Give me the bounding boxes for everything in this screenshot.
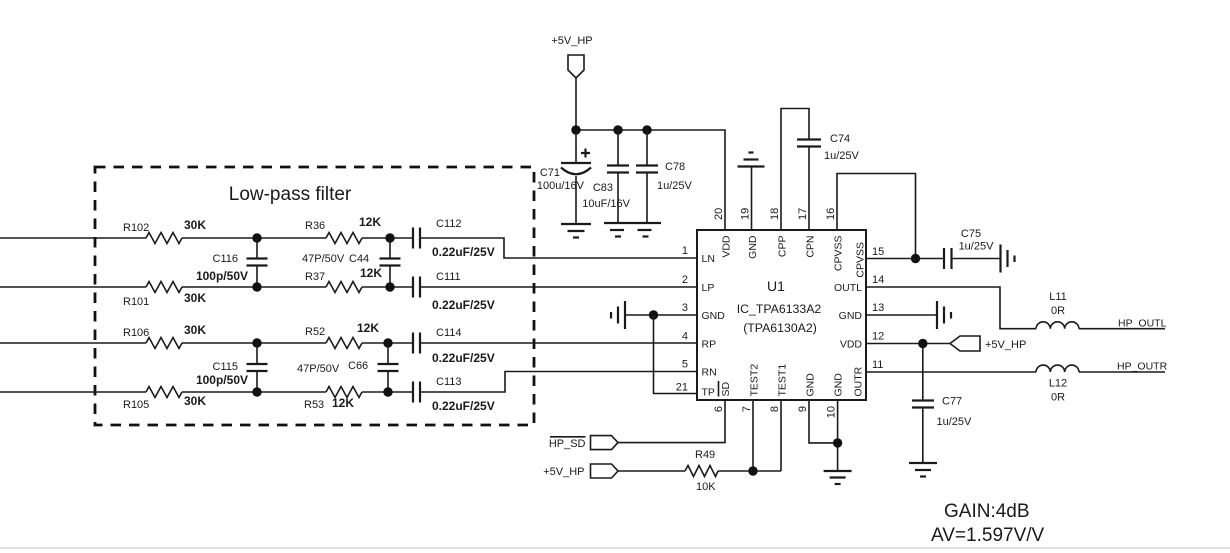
svg-text:10uF/16V: 10uF/16V <box>582 198 630 210</box>
wire pin 10 GND down to ground <box>837 400 839 471</box>
capacitor C115 100p/50V <box>196 343 268 392</box>
svg-text:1u/25V: 1u/25V <box>824 150 860 162</box>
svg-text:0.22uF/25V: 0.22uF/25V <box>432 399 495 413</box>
svg-text:Low-pass filter: Low-pass filter <box>229 184 352 205</box>
ground C77 <box>909 463 937 477</box>
svg-text:C114: C114 <box>436 327 461 339</box>
svg-text:CPP: CPP <box>777 236 789 258</box>
U1 bottom pin numbers rotated <box>713 406 838 418</box>
svg-text:+5V_HP: +5V_HP <box>551 35 592 47</box>
wire row1 R36 to C112 <box>362 237 413 239</box>
svg-text:TP: TP <box>702 387 715 399</box>
capacitor C78 1u/25V <box>636 130 693 223</box>
svg-text:17: 17 <box>797 208 809 220</box>
junction row3 col1 <box>252 338 261 347</box>
junction rail C71 <box>571 125 580 134</box>
junction row2 col2 <box>385 282 394 291</box>
svg-text:+5V_HP: +5V_HP <box>543 466 584 478</box>
U1 left pin numbers <box>676 245 688 394</box>
wire pin 13 GND <box>866 314 937 316</box>
resistor R101 <box>123 282 206 309</box>
svg-text:GND: GND <box>747 235 759 259</box>
svg-text:10K: 10K <box>696 481 716 493</box>
capacitor C111 0.22uF/25V <box>413 271 495 312</box>
wire row1 left input to R102 <box>0 237 146 239</box>
svg-text:0.22uF/25V: 0.22uF/25V <box>432 245 495 259</box>
svg-text:OUTR: OUTR <box>853 366 865 396</box>
junction row1 col1 <box>252 233 261 242</box>
wire +5V_HP flag down to rail <box>575 78 577 130</box>
svg-text:30K: 30K <box>184 218 206 232</box>
ground C83 C78 shared <box>604 223 661 237</box>
svg-text:CPN: CPN <box>805 236 817 258</box>
svg-text:4: 4 <box>682 331 688 343</box>
power flag +5V_HP bottom left <box>543 464 618 478</box>
svg-text:GND: GND <box>833 373 845 397</box>
capacitor C83 10uF/16V <box>582 130 630 223</box>
svg-text:GND: GND <box>805 373 817 397</box>
svg-text:R53: R53 <box>304 399 324 411</box>
svg-text:R37: R37 <box>305 271 325 283</box>
power flag +5V_HP right <box>950 336 1026 351</box>
svg-text:47P/50V: 47P/50V <box>297 363 340 375</box>
svg-text:18: 18 <box>769 208 781 220</box>
svg-text:R105: R105 <box>123 399 149 411</box>
svg-text:R102: R102 <box>123 222 149 234</box>
svg-text:R36: R36 <box>305 220 325 232</box>
svg-text:CPVSS: CPVSS <box>833 236 845 272</box>
svg-text:12K: 12K <box>332 396 354 410</box>
sheet bottom edge line <box>0 547 1230 549</box>
wire pin 3 GND <box>625 314 697 316</box>
svg-text:+5V_HP: +5V_HP <box>985 339 1026 351</box>
svg-text:0.22uF/25V: 0.22uF/25V <box>432 298 495 312</box>
svg-text:C66: C66 <box>348 360 368 372</box>
wire pin 16 CPVSS to pin 15 net <box>837 174 916 259</box>
svg-text:100u/16V: 100u/16V <box>537 180 585 192</box>
svg-text:12: 12 <box>872 331 884 343</box>
wire +5V rail to pin 20 <box>576 130 725 230</box>
svg-text:SD: SD <box>720 381 732 396</box>
ground pin 13 pointing right <box>937 301 951 329</box>
svg-text:C74: C74 <box>830 133 850 145</box>
svg-text:1u/25V: 1u/25V <box>959 241 995 253</box>
svg-text:30K: 30K <box>184 291 206 305</box>
U1 right pin names <box>834 282 862 351</box>
wire row1 C112 to pin 1 with step <box>420 238 697 258</box>
svg-text:CPVSS: CPVSS <box>855 242 867 278</box>
svg-text:100p/50V: 100p/50V <box>196 269 248 283</box>
svg-text:GND: GND <box>839 310 863 322</box>
wire row2 R37 to C111 <box>362 286 413 288</box>
svg-text:15: 15 <box>872 246 884 258</box>
svg-text:9: 9 <box>797 406 809 412</box>
signal flag HP_SD <box>549 436 618 450</box>
svg-text:30K: 30K <box>184 323 206 337</box>
junction row4 col1 <box>252 387 261 396</box>
wire pin 6 SD to HP_SD flag <box>618 400 725 443</box>
ground C75 pointing right <box>1001 245 1015 273</box>
op-amp U1 IC_TPA6133A2 body <box>697 230 866 400</box>
wire R49 to TEST pins <box>718 470 781 472</box>
U1 left pin names <box>702 253 726 399</box>
svg-text:VDD: VDD <box>840 339 863 351</box>
wire row4 R105 to R53 <box>182 391 326 393</box>
junction pin 15 net <box>911 254 920 263</box>
svg-text:R106: R106 <box>123 327 149 339</box>
svg-text:C44: C44 <box>349 253 369 265</box>
svg-text:OUTL: OUTL <box>834 282 862 294</box>
wire +5V_HP flag to R49 <box>618 470 685 472</box>
junction row1 col2 <box>385 233 394 242</box>
U1 top pin numbers rotated <box>713 208 837 220</box>
svg-text:7: 7 <box>741 406 753 412</box>
svg-text:6: 6 <box>713 406 725 412</box>
svg-text:30K: 30K <box>184 394 206 408</box>
svg-text:IC_TPA6133A2: IC_TPA6133A2 <box>737 302 822 316</box>
resistor R53 <box>304 387 362 412</box>
wire row1 R102 to R36 <box>182 237 326 239</box>
wire pin 8 TEST1 down <box>780 400 782 471</box>
svg-text:2: 2 <box>682 274 688 286</box>
U1 top pin names rotated <box>721 235 845 271</box>
svg-text:VDD: VDD <box>721 235 733 258</box>
capacitor C75 1u/25V <box>944 228 994 269</box>
wire row4 left input to R105 <box>0 391 146 393</box>
svg-text:0.22uF/25V: 0.22uF/25V <box>432 351 495 365</box>
wire pin 12 VDD to flag <box>866 343 950 345</box>
junction R49 TEST2 <box>748 466 757 475</box>
svg-text:100p/50V: 100p/50V <box>196 373 248 387</box>
capacitor C116 100p/50V <box>196 238 268 287</box>
svg-text:R49: R49 <box>695 449 715 461</box>
svg-text:C115: C115 <box>213 361 238 373</box>
ground C71 <box>561 224 591 238</box>
ground pin 19 pointing up <box>738 153 765 231</box>
svg-text:C112: C112 <box>436 218 461 230</box>
wire row2 C111 to pin 2 <box>420 286 697 288</box>
svg-text:19: 19 <box>740 208 752 220</box>
resistor R37 <box>305 266 382 293</box>
wire row3 left input to R106 <box>0 342 146 344</box>
svg-text:HP_OUTL: HP_OUTL <box>1118 318 1167 330</box>
wire L11 to HP_OUTL <box>1079 328 1165 330</box>
svg-text:RN: RN <box>702 367 717 379</box>
svg-text:C71: C71 <box>540 167 560 179</box>
resistor R36 <box>305 215 381 244</box>
wire pin 7 TEST2 down <box>752 400 754 471</box>
svg-text:1u/25V: 1u/25V <box>657 180 693 192</box>
ground pin 10 <box>824 471 852 484</box>
svg-text:20: 20 <box>713 208 725 220</box>
svg-text:U1: U1 <box>767 278 785 294</box>
inductor L12 0R <box>1036 365 1079 403</box>
capacitor C113 0.22uF/25V <box>413 376 495 413</box>
wire row3 C114 to pin 4 <box>420 342 697 344</box>
wire pin 15 to C75 <box>866 258 944 260</box>
resistor R106 <box>123 323 206 349</box>
wire row2 R101 to R37 <box>182 286 326 288</box>
junction pin 3 net <box>649 310 658 319</box>
svg-text:13: 13 <box>872 302 884 314</box>
capacitor C77 1u/25V <box>912 396 972 464</box>
svg-text:(TPA6130A2): (TPA6130A2) <box>743 321 817 335</box>
wire pin 12 net down to C77 <box>922 344 924 401</box>
svg-text:C111: C111 <box>436 271 461 283</box>
svg-text:3: 3 <box>682 302 688 314</box>
wire pin 9 GND down <box>809 400 838 443</box>
junction pin 12 net <box>918 339 927 348</box>
wire row3 R106 to R52 <box>182 342 326 344</box>
U1 bottom pin names rotated <box>749 364 845 397</box>
svg-text:C75: C75 <box>961 228 981 240</box>
power flag +5V_HP top <box>551 35 592 78</box>
junction row4 col2 <box>383 387 392 396</box>
capacitor C44 47P/50V <box>302 238 401 287</box>
svg-text:TEST2: TEST2 <box>749 364 761 397</box>
svg-text:L12: L12 <box>1049 378 1067 390</box>
junction rail C83 <box>613 125 622 134</box>
resistor R105 <box>123 387 206 412</box>
wire pin 18 CPP loop <box>781 109 809 231</box>
svg-text:16: 16 <box>825 208 837 220</box>
svg-text:1u/25V: 1u/25V <box>937 416 973 428</box>
low-pass filter dashed box <box>95 167 534 425</box>
junction row3 col2 <box>383 338 392 347</box>
svg-text:C113: C113 <box>436 376 461 388</box>
svg-text:14: 14 <box>872 274 884 286</box>
capacitor C74 1u/25V <box>797 133 860 230</box>
ground pin 3 pointing left <box>611 301 625 329</box>
svg-text:C116: C116 <box>213 253 238 265</box>
capacitor C112 0.22uF/25V <box>413 218 495 259</box>
svg-text:L11: L11 <box>1049 291 1067 303</box>
svg-text:0R: 0R <box>1051 392 1065 404</box>
wire row4 R53 to C113 <box>362 391 413 393</box>
wire L12 to HP_OUTR <box>1079 371 1165 373</box>
svg-text:21: 21 <box>676 382 688 394</box>
resistor R49 10K <box>685 449 718 493</box>
svg-text:0R: 0R <box>1051 305 1065 317</box>
resistor R102 <box>123 218 206 244</box>
capacitor C71 100u/16V polarized <box>537 130 591 224</box>
svg-text:HP_SD: HP_SD <box>549 438 586 450</box>
svg-text:C78: C78 <box>665 161 685 173</box>
svg-text:GAIN:4dB: GAIN:4dB <box>944 501 1030 522</box>
wire row4 C113 to pin 5 with step up <box>420 372 697 393</box>
svg-text:8: 8 <box>769 406 781 412</box>
svg-text:12K: 12K <box>357 321 379 335</box>
wire pin 11 OUTR to L12 <box>866 371 1036 373</box>
capacitor C114 0.22uF/25V <box>413 327 495 365</box>
junction row2 col1 <box>252 282 261 291</box>
svg-text:12K: 12K <box>360 266 382 280</box>
svg-text:10: 10 <box>826 406 838 418</box>
junction rail C78 <box>642 125 651 134</box>
svg-text:12K: 12K <box>359 215 381 229</box>
inductor L11 0R <box>1036 291 1079 329</box>
svg-text:C83: C83 <box>593 182 613 194</box>
junction pin 9 pin 10 <box>833 438 842 447</box>
svg-text:AV=1.597V/V: AV=1.597V/V <box>931 525 1045 546</box>
svg-text:LN: LN <box>702 253 715 265</box>
wire row3 R52 to C114 <box>362 342 413 344</box>
svg-text:47P/50V: 47P/50V <box>302 253 345 265</box>
U1 pin 6 name SD-bar rotated <box>719 381 733 397</box>
svg-text:TEST1: TEST1 <box>777 364 789 397</box>
wire row2 left input to R101 <box>0 286 146 288</box>
svg-text:GND: GND <box>702 310 726 322</box>
svg-text:RP: RP <box>702 339 717 351</box>
wire C75 to ground <box>952 258 1001 260</box>
capacitor C66 47P/50V <box>297 343 399 392</box>
svg-text:HP_OUTR: HP_OUTR <box>1117 361 1168 373</box>
svg-text:11: 11 <box>872 359 883 371</box>
U1 right pin numbers <box>872 246 884 371</box>
svg-text:R101: R101 <box>123 296 149 308</box>
svg-text:5: 5 <box>682 359 688 371</box>
svg-text:1: 1 <box>682 245 688 257</box>
svg-text:R52: R52 <box>305 326 325 338</box>
wire pin 14 OUTL to L11 <box>866 287 1036 329</box>
wire GND net to pin 21 TP <box>654 315 698 394</box>
svg-text:C77: C77 <box>942 396 962 408</box>
svg-text:LP: LP <box>702 282 715 294</box>
resistor R52 <box>305 321 379 349</box>
